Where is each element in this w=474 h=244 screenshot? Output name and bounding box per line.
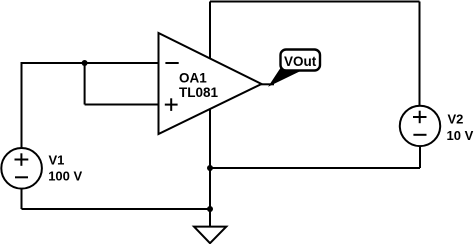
V2 body circle <box>400 106 440 146</box>
svg-text:V2: V2 <box>448 111 464 126</box>
node A junction dot (input tie) <box>82 60 88 66</box>
flag pointer <box>270 68 299 86</box>
voltage source V2 <box>400 106 474 146</box>
op-amp U1 (OA1 TL081) <box>159 33 262 134</box>
wire V2 bottom lead (vertical) <box>419 146 421 168</box>
op-amp inverting input minus sign <box>165 62 178 64</box>
wire V1 top lead (vertical) <box>21 63 23 149</box>
node C junction dot (V1 return) <box>207 206 213 212</box>
svg-text:V1: V1 <box>49 153 65 168</box>
svg-text:10 V: 10 V <box>447 128 474 143</box>
svg-text:100 V: 100 V <box>48 168 82 183</box>
V1 minus sign <box>15 176 28 178</box>
flag box <box>281 50 321 71</box>
svg-text:TL081: TL081 <box>179 85 219 100</box>
svg-text:OA1: OA1 <box>179 71 207 86</box>
net flag VOut <box>270 50 321 86</box>
wire node A drop (vertical) <box>84 63 86 105</box>
wire V1 minus to center node (horizontal) <box>22 208 211 210</box>
wire V1 plus to inverting input (horizontal) <box>21 62 160 64</box>
op-amp non-inverting input plus sign <box>165 98 178 111</box>
wire top horizontal <box>210 1 420 3</box>
V2 minus sign <box>413 134 426 136</box>
wire right vertical to V2 plus <box>419 2 421 107</box>
node B junction dot (V2 return) <box>207 165 213 171</box>
V1 plus sign <box>15 153 29 166</box>
ground <box>194 227 226 244</box>
wire V1 bottom lead (vertical) <box>21 189 23 210</box>
wire center vertical to ground (passes behind op-amp) <box>209 2 211 228</box>
op-amp body <box>159 33 262 134</box>
svg-text:VOut: VOut <box>284 54 317 69</box>
wire op-amp output stub <box>261 83 274 85</box>
voltage source V1 <box>1 148 82 189</box>
wire to non-inverting input (horizontal) <box>85 104 160 106</box>
wire V2 minus to center node (horizontal) <box>210 167 420 169</box>
V2 plus sign <box>413 111 427 124</box>
V1 body circle <box>1 148 42 189</box>
